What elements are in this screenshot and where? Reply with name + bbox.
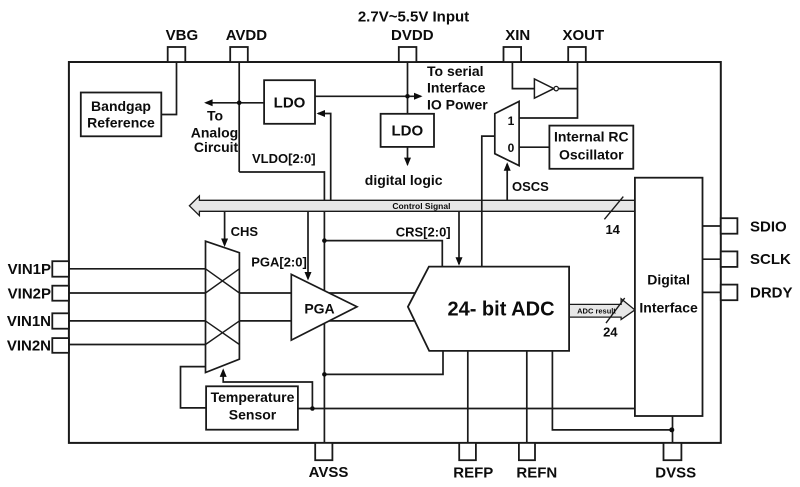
arrowhead OSCS xyxy=(504,162,511,171)
svg-text:AVSS: AVSS xyxy=(309,464,349,481)
svg-text:Bandgap: Bandgap xyxy=(91,98,151,114)
pin REFP xyxy=(459,443,476,460)
pin DVSS xyxy=(664,443,682,460)
arrowhead temp to mux xyxy=(220,368,227,377)
wire OSCS select xyxy=(506,164,508,200)
wire VBG to Bandgap xyxy=(161,62,176,115)
svg-text:VBG: VBG xyxy=(166,27,199,44)
ADC result bus xyxy=(569,299,635,320)
wire REFN xyxy=(526,351,528,443)
wire DVDD vertical xyxy=(407,62,409,114)
svg-text:VLDO[2:0]: VLDO[2:0] xyxy=(252,151,316,166)
crystal inverter xyxy=(534,79,553,98)
svg-text:PGA[2:0]: PGA[2:0] xyxy=(251,255,307,270)
svg-text:Interface: Interface xyxy=(427,80,486,96)
wire ADC ground to DVSS xyxy=(552,351,671,430)
svg-text:DVDD: DVDD xyxy=(391,27,434,44)
wire refp branch xyxy=(324,351,443,375)
svg-text:XIN: XIN xyxy=(505,27,530,44)
wire RC osc to mux input 0 xyxy=(519,146,549,148)
wire mux to temperature sensor xyxy=(181,367,207,408)
junction DVSS node xyxy=(669,427,674,432)
svg-text:digital logic: digital logic xyxy=(365,172,443,188)
svg-text:ADC result: ADC result xyxy=(577,307,616,316)
svg-text:24: 24 xyxy=(603,325,618,340)
bandgap reference box xyxy=(81,93,162,137)
svg-text:To serial: To serial xyxy=(427,63,484,79)
svg-text:Analog: Analog xyxy=(191,124,238,140)
input mux (channel select) xyxy=(206,241,240,372)
wire XOUT / inverter out / mux input 1 xyxy=(519,62,577,118)
wire bus to AVSS vertical xyxy=(323,211,325,443)
pin SDIO xyxy=(721,218,738,234)
mux cross X lower xyxy=(206,321,240,345)
wire DRDY xyxy=(703,291,721,293)
pin SCLK xyxy=(721,251,738,267)
arrowhead CHS xyxy=(221,239,228,248)
wire XIN to inverter xyxy=(512,62,534,89)
svg-text:Interface: Interface xyxy=(639,300,698,316)
svg-text:VIN1N: VIN1N xyxy=(7,313,51,330)
junction REFP branch node xyxy=(322,372,327,377)
pin VIN2N xyxy=(52,338,69,353)
svg-text:1: 1 xyxy=(508,114,515,128)
wire VIN2N xyxy=(69,344,206,346)
wire VLDO path xyxy=(239,172,324,200)
svg-text:To: To xyxy=(207,107,223,123)
svg-text:2.7V~5.5V Input: 2.7V~5.5V Input xyxy=(358,8,469,25)
svg-text:Reference: Reference xyxy=(87,114,155,130)
clock mux xyxy=(495,101,519,165)
svg-text:VIN2N: VIN2N xyxy=(7,338,51,355)
wire PGA[2:0] xyxy=(307,211,309,278)
junction CRS node xyxy=(322,238,327,243)
svg-text:AVDD: AVDD xyxy=(226,27,268,44)
svg-text:24- bit ADC: 24- bit ADC xyxy=(447,299,554,321)
wire temp sensor output to digital interface xyxy=(298,408,635,410)
wire digital interface to DVSS xyxy=(672,416,674,443)
svg-text:OSCS: OSCS xyxy=(512,179,549,194)
LDO U1 (analog) xyxy=(264,80,315,124)
junction DVDD node xyxy=(405,94,410,99)
mux cross X upper xyxy=(206,269,240,293)
svg-text:XOUT: XOUT xyxy=(562,27,604,44)
svg-text:CHS: CHS xyxy=(231,224,259,239)
svg-text:DVSS: DVSS xyxy=(655,465,696,482)
wire VIN1N diff line to ADC xyxy=(69,320,415,322)
arrowhead PGA control xyxy=(305,272,312,281)
control signal bus xyxy=(189,196,635,216)
arrowhead bus to ADC xyxy=(456,257,463,266)
svg-text:REFN: REFN xyxy=(516,465,557,482)
svg-text:14: 14 xyxy=(605,222,620,237)
wire to analog circuit arrow xyxy=(206,102,264,104)
wire REFP xyxy=(467,351,469,443)
pin AVDD xyxy=(230,47,248,62)
bus width slash 24 xyxy=(606,298,625,323)
svg-text:SCLK: SCLK xyxy=(750,251,791,268)
svg-text:0: 0 xyxy=(508,141,515,155)
svg-text:VIN2P: VIN2P xyxy=(8,285,51,302)
junction AVDD node xyxy=(237,101,242,106)
wire AVDD vertical xyxy=(238,62,240,172)
svg-text:IO Power: IO Power xyxy=(427,96,488,112)
pin DRDY xyxy=(721,285,738,301)
24-bit ADC block xyxy=(408,267,569,351)
svg-text:CRS[2:0]: CRS[2:0] xyxy=(396,225,451,240)
LDO U2 (digital) xyxy=(381,114,434,147)
wire VIN2P diff line to ADC xyxy=(69,292,415,294)
svg-text:Circuit: Circuit xyxy=(194,139,239,155)
arrowhead serial IO power xyxy=(414,93,423,100)
svg-text:DRDY: DRDY xyxy=(750,284,793,301)
wire SCLK xyxy=(703,258,721,260)
pin REFN xyxy=(519,443,535,460)
svg-text:LDO: LDO xyxy=(274,95,306,112)
wire LDO1 output to DVDD arrow xyxy=(315,95,421,97)
svg-text:VIN1P: VIN1P xyxy=(8,261,51,278)
junction temp sensor node xyxy=(310,406,315,411)
bus width slash 14 xyxy=(604,197,623,220)
svg-text:Control Signal: Control Signal xyxy=(392,201,450,211)
svg-text:Oscillator: Oscillator xyxy=(559,146,624,162)
wire CHS xyxy=(224,211,226,245)
svg-text:REFP: REFP xyxy=(453,465,493,482)
pin VIN1P xyxy=(52,261,69,277)
wire VIN1P xyxy=(69,268,206,270)
wire inverter out xyxy=(556,88,577,90)
wire bus to ADC arrow xyxy=(458,211,460,264)
temperature sensor box xyxy=(206,386,298,429)
digital interface box xyxy=(635,178,703,416)
wire temp sensor to mux arrow xyxy=(223,371,312,409)
svg-text:PGA: PGA xyxy=(304,301,334,317)
pin VBG xyxy=(168,47,186,62)
pin VIN1N xyxy=(52,313,69,328)
pin DVDD xyxy=(399,47,417,62)
pin XOUT xyxy=(568,47,586,62)
arrowhead digital logic xyxy=(404,158,411,167)
wire LDO2 to digital logic xyxy=(407,147,409,165)
wire LDO1 control from bus xyxy=(318,114,331,201)
svg-text:Digital: Digital xyxy=(647,271,690,287)
svg-text:Sensor: Sensor xyxy=(229,407,277,423)
internal RC oscillator box xyxy=(549,126,633,169)
pin VIN2P xyxy=(52,286,69,301)
PGA amplifier triangle xyxy=(291,274,357,340)
wire SDIO xyxy=(703,225,721,227)
chip outline xyxy=(69,62,721,443)
arrowhead to analog circuit xyxy=(204,99,213,106)
svg-text:LDO: LDO xyxy=(391,123,423,140)
pin AVSS xyxy=(315,443,332,460)
arrowhead LDO1 control xyxy=(317,110,326,117)
pin XIN xyxy=(504,47,522,62)
svg-text:Temperature: Temperature xyxy=(211,389,295,405)
wire CRS horizontal xyxy=(324,241,442,267)
svg-text:SDIO: SDIO xyxy=(750,218,787,235)
svg-text:Internal RC: Internal RC xyxy=(554,128,629,144)
wire clock mux output to ADC xyxy=(482,136,495,267)
